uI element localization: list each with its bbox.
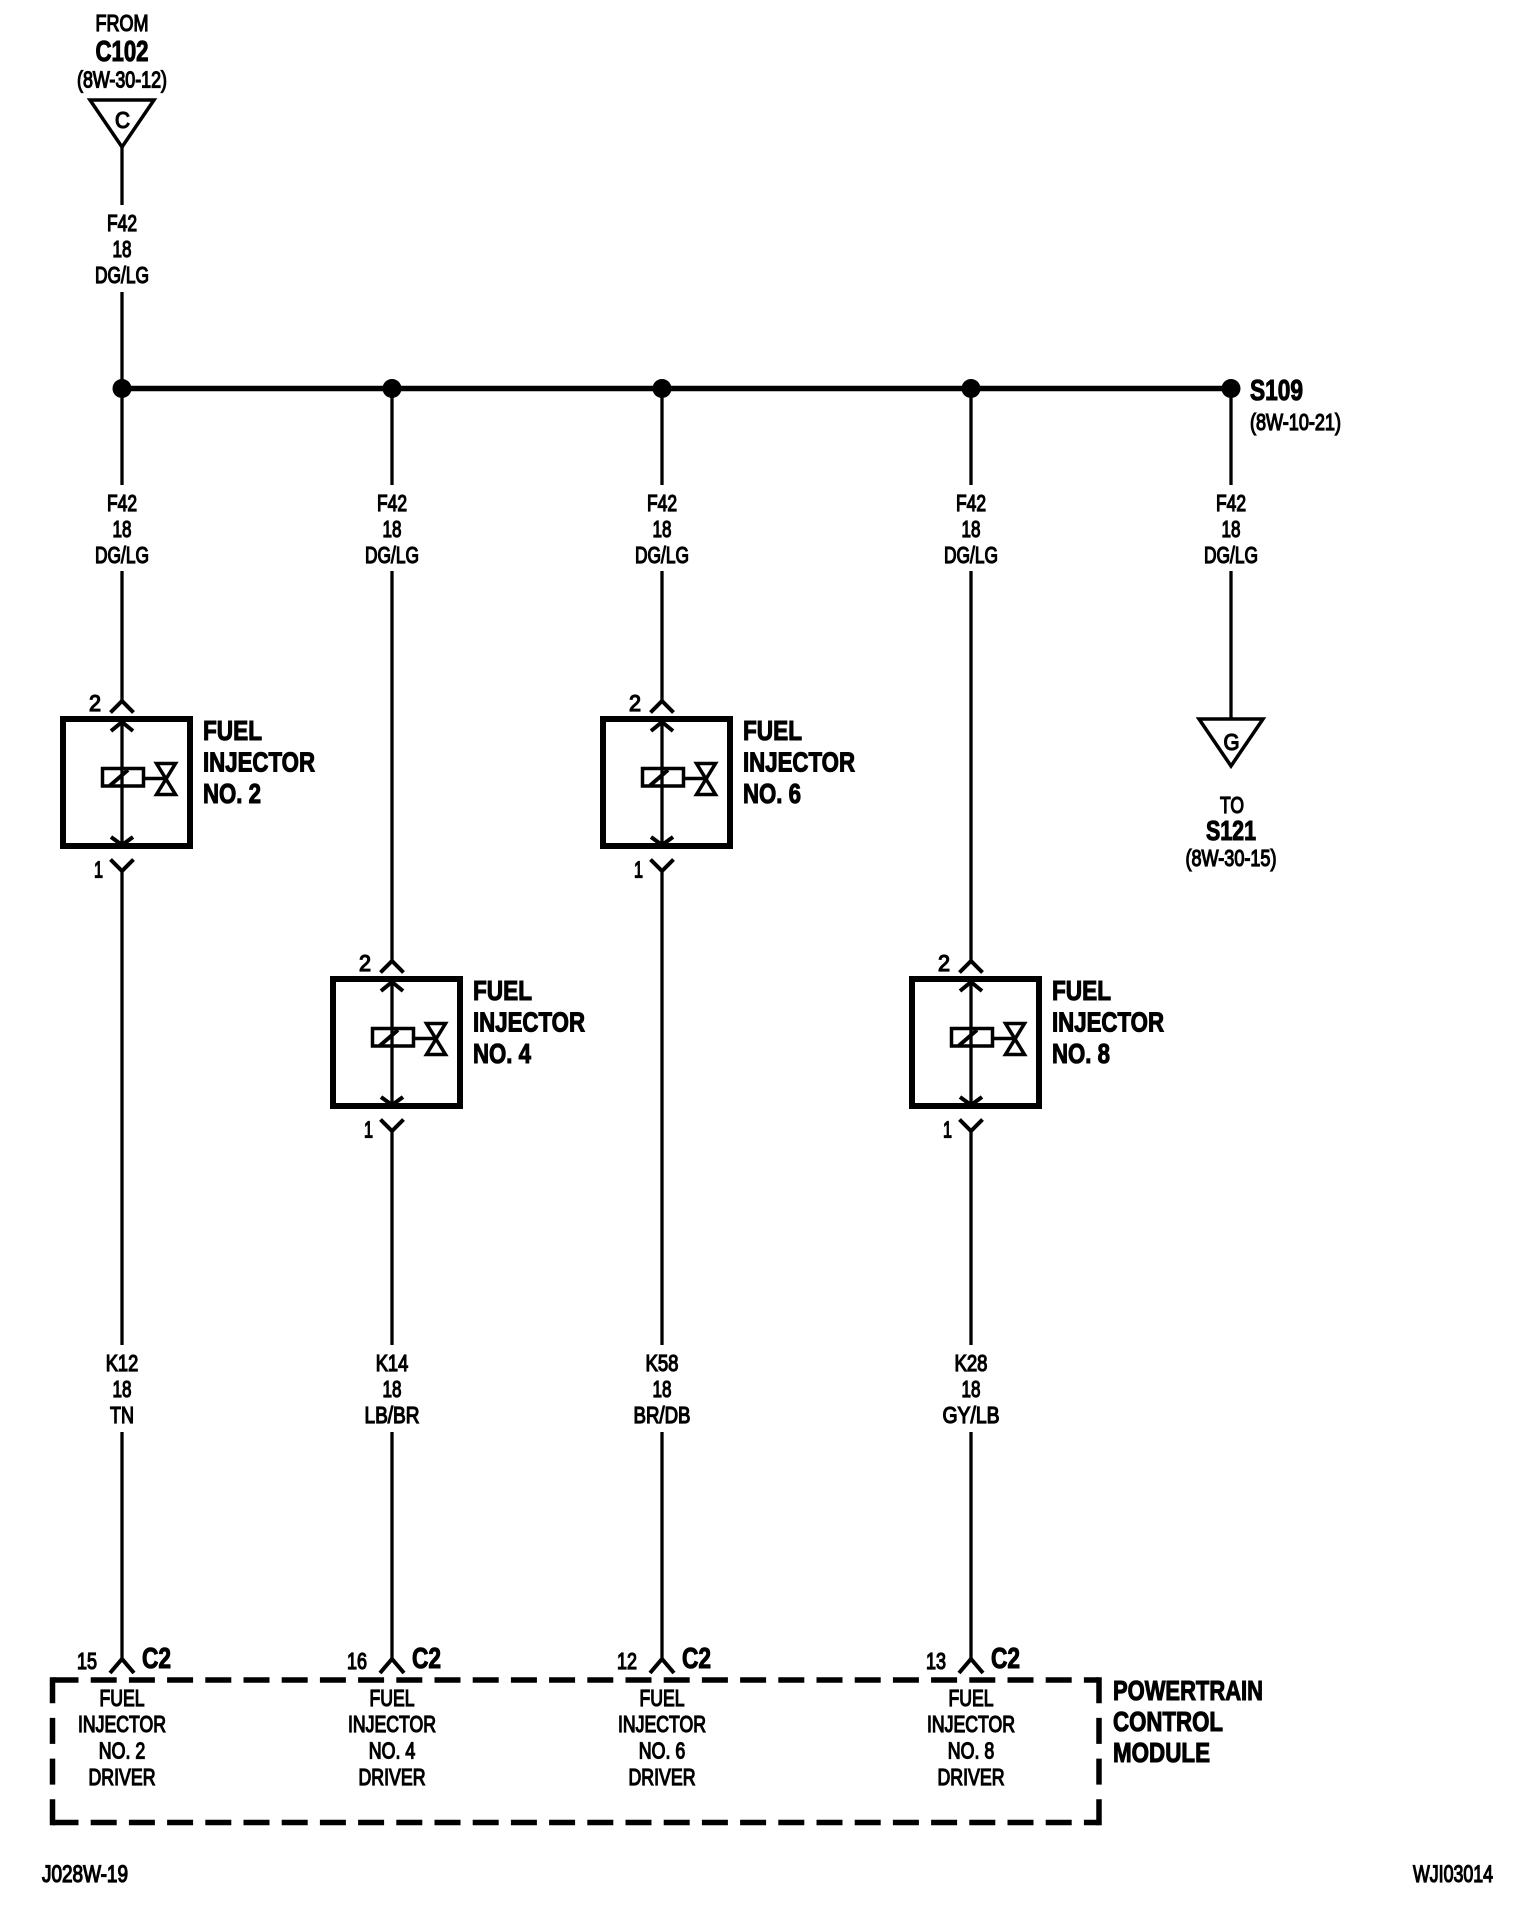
svg-text:BR/DB: BR/DB: [634, 1402, 691, 1428]
svg-text:K14: K14: [376, 1350, 409, 1376]
svg-text:18: 18: [653, 1376, 672, 1402]
svg-text:18: 18: [113, 236, 132, 262]
svg-text:1: 1: [364, 1117, 373, 1143]
svg-text:C2: C2: [142, 1643, 171, 1675]
svg-text:NO. 8: NO. 8: [948, 1738, 995, 1764]
svg-text:WJI03014: WJI03014: [1413, 1861, 1493, 1888]
svg-text:FUEL: FUEL: [473, 975, 532, 1006]
svg-text:FUEL: FUEL: [1052, 975, 1111, 1006]
svg-text:INJECTOR: INJECTOR: [348, 1711, 436, 1737]
svg-text:(8W-30-12): (8W-30-12): [77, 67, 167, 93]
svg-text:DG/LG: DG/LG: [365, 542, 419, 568]
svg-text:F42: F42: [377, 490, 407, 516]
svg-text:J028W-19: J028W-19: [42, 1861, 128, 1888]
svg-text:DRIVER: DRIVER: [938, 1764, 1005, 1790]
svg-text:DRIVER: DRIVER: [629, 1764, 696, 1790]
svg-text:FUEL: FUEL: [203, 715, 262, 746]
svg-text:2: 2: [938, 950, 950, 976]
svg-text:F42: F42: [647, 490, 677, 516]
svg-text:F42: F42: [107, 490, 137, 516]
svg-text:S121: S121: [1206, 815, 1256, 846]
svg-text:DG/LG: DG/LG: [944, 542, 998, 568]
svg-text:16: 16: [347, 1648, 367, 1674]
svg-text:(8W-30-15): (8W-30-15): [1186, 845, 1277, 871]
svg-text:INJECTOR: INJECTOR: [203, 747, 315, 778]
svg-text:18: 18: [1222, 516, 1241, 542]
svg-text:F42: F42: [956, 490, 986, 516]
svg-text:S109: S109: [1250, 375, 1303, 407]
svg-text:INJECTOR: INJECTOR: [618, 1711, 706, 1737]
svg-text:NO. 2: NO. 2: [99, 1738, 146, 1764]
svg-text:FUEL: FUEL: [640, 1685, 685, 1711]
svg-text:18: 18: [653, 516, 672, 542]
svg-text:18: 18: [113, 1376, 132, 1402]
svg-text:(8W-10-21): (8W-10-21): [1250, 409, 1341, 435]
svg-text:K12: K12: [106, 1350, 139, 1376]
svg-text:CONTROL: CONTROL: [1113, 1706, 1223, 1737]
svg-text:FUEL: FUEL: [100, 1685, 145, 1711]
svg-text:FUEL: FUEL: [949, 1685, 994, 1711]
svg-text:INJECTOR: INJECTOR: [927, 1711, 1015, 1737]
svg-text:18: 18: [383, 516, 402, 542]
svg-text:DRIVER: DRIVER: [89, 1764, 156, 1790]
svg-text:DG/LG: DG/LG: [95, 262, 149, 288]
svg-text:NO. 4: NO. 4: [369, 1738, 416, 1764]
svg-text:18: 18: [962, 516, 981, 542]
svg-text:TN: TN: [110, 1402, 134, 1428]
svg-text:C2: C2: [991, 1643, 1020, 1675]
svg-text:18: 18: [962, 1376, 981, 1402]
svg-text:FROM: FROM: [96, 10, 149, 36]
svg-text:DG/LG: DG/LG: [635, 542, 689, 568]
svg-text:F42: F42: [107, 210, 137, 236]
svg-text:INJECTOR: INJECTOR: [1052, 1007, 1164, 1038]
svg-text:G: G: [1224, 729, 1240, 755]
svg-text:1: 1: [943, 1117, 952, 1143]
svg-text:15: 15: [77, 1648, 97, 1674]
svg-text:2: 2: [89, 690, 101, 716]
svg-text:INJECTOR: INJECTOR: [473, 1007, 585, 1038]
svg-text:LB/BR: LB/BR: [365, 1402, 420, 1428]
svg-text:2: 2: [629, 690, 641, 716]
svg-text:INJECTOR: INJECTOR: [78, 1711, 166, 1737]
svg-text:FUEL: FUEL: [743, 715, 802, 746]
svg-text:2: 2: [359, 950, 371, 976]
svg-text:18: 18: [113, 516, 132, 542]
svg-text:DG/LG: DG/LG: [95, 542, 149, 568]
svg-text:NO. 6: NO. 6: [743, 778, 801, 809]
svg-text:INJECTOR: INJECTOR: [743, 747, 855, 778]
svg-text:C2: C2: [412, 1643, 441, 1675]
svg-text:C: C: [115, 107, 130, 133]
svg-text:K58: K58: [646, 1350, 679, 1376]
svg-text:18: 18: [383, 1376, 402, 1402]
svg-text:13: 13: [926, 1648, 946, 1674]
svg-text:NO. 6: NO. 6: [639, 1738, 686, 1764]
svg-text:1: 1: [94, 857, 103, 883]
svg-text:1: 1: [634, 857, 643, 883]
svg-text:12: 12: [617, 1648, 637, 1674]
svg-text:NO. 8: NO. 8: [1052, 1038, 1110, 1069]
svg-text:FUEL: FUEL: [370, 1685, 415, 1711]
svg-text:NO. 2: NO. 2: [203, 778, 261, 809]
svg-text:DRIVER: DRIVER: [359, 1764, 426, 1790]
svg-text:C102: C102: [96, 36, 149, 68]
svg-text:POWERTRAIN: POWERTRAIN: [1113, 1675, 1263, 1706]
svg-text:C2: C2: [682, 1643, 711, 1675]
svg-text:K28: K28: [955, 1350, 988, 1376]
svg-text:MODULE: MODULE: [1113, 1737, 1210, 1768]
svg-text:F42: F42: [1216, 490, 1246, 516]
svg-text:NO. 4: NO. 4: [473, 1038, 531, 1069]
svg-text:GY/LB: GY/LB: [943, 1402, 1000, 1428]
svg-text:DG/LG: DG/LG: [1204, 542, 1258, 568]
